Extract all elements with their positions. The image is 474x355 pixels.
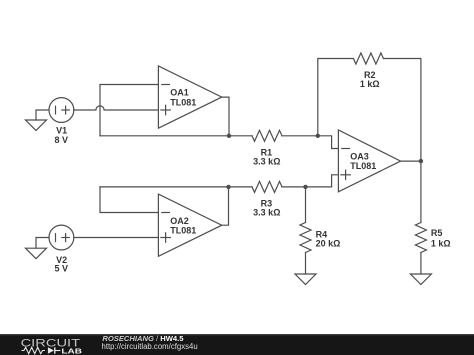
wire to OA3 + input bbox=[306, 175, 339, 187]
wire OA1 - input feedback bbox=[100, 85, 158, 136]
wire OA2 output bbox=[222, 187, 229, 225]
svg-text:TL081: TL081 bbox=[170, 97, 196, 107]
footer bar bbox=[0, 334, 474, 355]
svg-text:3.3 kΩ: 3.3 kΩ bbox=[253, 208, 280, 218]
logo diode symbol bbox=[48, 347, 54, 353]
junction OA2 output / R3 wire bbox=[226, 185, 230, 189]
logo resistor zigzag bbox=[22, 347, 45, 353]
wire OA3 output bbox=[401, 160, 421, 162]
svg-text:20 kΩ: 20 kΩ bbox=[316, 239, 341, 249]
svg-text:8 V: 8 V bbox=[55, 135, 69, 145]
svg-text:http://circuitlab.com/cfgxs4u: http://circuitlab.com/cfgxs4u bbox=[102, 342, 198, 351]
op-amp OA1 bbox=[158, 66, 221, 128]
svg-text:OA2: OA2 bbox=[170, 216, 189, 226]
wire R2 right leg bbox=[383, 59, 421, 162]
junction OA1 output / R1 wire bbox=[227, 134, 231, 138]
wire node A (R1 left wire) bbox=[100, 135, 252, 137]
wire OA1 output bbox=[222, 97, 229, 136]
wire R5 to ground bbox=[420, 253, 422, 275]
svg-text:OA1: OA1 bbox=[170, 88, 189, 98]
resistor R2 bbox=[353, 53, 383, 64]
svg-text:1 kΩ: 1 kΩ bbox=[431, 239, 451, 249]
svg-text:OA3: OA3 bbox=[350, 152, 369, 162]
svg-text:LAB: LAB bbox=[61, 347, 82, 355]
wire V2 to OA2 + input bbox=[74, 237, 159, 239]
svg-text:1 kΩ: 1 kΩ bbox=[360, 79, 380, 89]
junction R4 / R3 wire bbox=[303, 185, 307, 189]
svg-text:3.3 kΩ: 3.3 kΩ bbox=[253, 157, 280, 167]
voltage source V2 bbox=[49, 225, 74, 250]
wire V1 to OA1 + input (hop over feedback wire) bbox=[74, 106, 159, 110]
resistor R5 bbox=[415, 223, 426, 253]
resistor R4 bbox=[300, 223, 311, 253]
ground GND3 (at R5) bbox=[410, 274, 431, 285]
wire node B (R3 left wire) bbox=[100, 186, 252, 188]
svg-text:TL081: TL081 bbox=[170, 225, 196, 235]
junction OA3 output / R2-R5 bbox=[419, 159, 423, 163]
ground GND2 (at V2) bbox=[26, 238, 50, 259]
op-amp OA2 bbox=[158, 194, 221, 256]
junction R2 / R1 wire bbox=[316, 134, 320, 138]
svg-text:TL081: TL081 bbox=[350, 161, 376, 171]
ground GND4 (at R4) bbox=[295, 274, 316, 285]
wire R2 left leg bbox=[318, 59, 354, 136]
op-amp OA3 bbox=[338, 130, 400, 192]
wire output to R5 bbox=[420, 161, 422, 222]
wire R4 to ground bbox=[305, 253, 307, 275]
wire R4 top bbox=[305, 187, 307, 223]
wire R3 to OA3 + node bbox=[282, 186, 306, 188]
wire R1 to OA3 - node bbox=[282, 135, 318, 137]
wire OA2 - input feedback bbox=[100, 187, 158, 213]
wire to OA3 - input bbox=[318, 136, 339, 149]
voltage source V1 bbox=[49, 98, 74, 123]
ground GND1 (at V1) bbox=[26, 110, 50, 131]
resistor R3 bbox=[252, 181, 282, 192]
resistor R1 bbox=[252, 130, 282, 141]
svg-text:5 V: 5 V bbox=[55, 263, 69, 273]
svg-text:R5: R5 bbox=[431, 228, 443, 238]
